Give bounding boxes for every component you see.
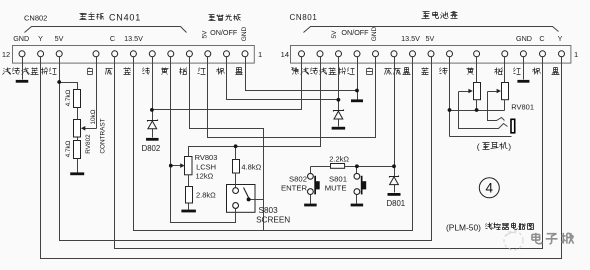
svg-text:C: C (539, 34, 544, 43)
svg-text:4: 4 (486, 180, 494, 195)
svg-text:CN401: CN401 (109, 13, 141, 23)
svg-text:1: 1 (574, 50, 578, 59)
svg-text:Y: Y (558, 34, 563, 43)
svg-text:(: ( (477, 142, 480, 152)
svg-text:SCREEN: SCREEN (256, 216, 290, 225)
svg-text:S802: S802 (289, 175, 307, 184)
svg-text:RV803: RV803 (195, 153, 218, 162)
svg-text:4.8kΩ: 4.8kΩ (241, 163, 261, 172)
svg-text:12: 12 (2, 50, 10, 59)
svg-text:ON/OFF: ON/OFF (341, 28, 369, 37)
svg-text:ENTER: ENTER (281, 184, 308, 193)
svg-text:2.8kΩ: 2.8kΩ (196, 191, 216, 200)
svg-text:): ) (508, 142, 511, 152)
svg-text:4.7kΩ: 4.7kΩ (65, 89, 72, 106)
svg-text:GND: GND (13, 34, 29, 43)
svg-text:CN802: CN802 (24, 14, 47, 23)
svg-text:S801: S801 (329, 175, 347, 184)
svg-text:(PLM-50): (PLM-50) (446, 222, 481, 232)
svg-text:5V: 5V (55, 34, 64, 43)
svg-text:CN801: CN801 (290, 13, 318, 22)
svg-text:10kΩ: 10kΩ (90, 109, 97, 124)
svg-text:4.7kΩ: 4.7kΩ (65, 140, 72, 157)
svg-text:ON/OFF: ON/OFF (210, 28, 238, 37)
svg-text:GND: GND (241, 26, 248, 41)
svg-text:LCSH: LCSH (196, 162, 216, 171)
svg-text:D802: D802 (142, 144, 161, 153)
svg-text:Y: Y (38, 34, 43, 43)
svg-text:RV801: RV801 (511, 103, 534, 112)
svg-text:CONTRAST: CONTRAST (100, 118, 107, 153)
svg-text:1: 1 (258, 50, 262, 59)
svg-text:13.5V: 13.5V (124, 34, 143, 43)
svg-text:14: 14 (281, 50, 289, 59)
svg-text:D801: D801 (387, 199, 406, 208)
svg-text:S803: S803 (259, 206, 279, 215)
svg-text:GND: GND (371, 26, 378, 41)
svg-text:MUTE: MUTE (325, 184, 347, 193)
svg-text:2.2kΩ: 2.2kΩ (329, 155, 349, 164)
svg-text:C: C (110, 34, 115, 43)
svg-text:GND: GND (516, 34, 532, 43)
svg-text:12kΩ: 12kΩ (196, 171, 214, 180)
svg-text:5V: 5V (331, 30, 338, 39)
svg-text:5V: 5V (202, 30, 209, 39)
svg-text:5V: 5V (426, 34, 435, 43)
svg-text:13.5V: 13.5V (401, 34, 420, 43)
svg-text:RV802: RV802 (85, 134, 92, 154)
